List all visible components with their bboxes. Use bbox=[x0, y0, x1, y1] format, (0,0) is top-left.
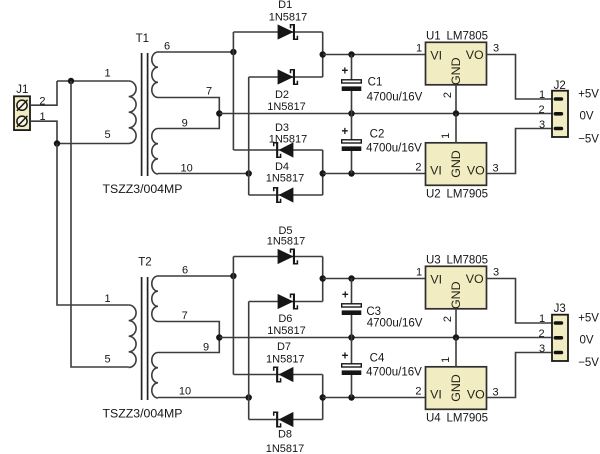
wire J1 pin2 to riser bbox=[30, 81, 57, 105]
node - output T2 bbox=[320, 394, 326, 400]
svg-text:5: 5 bbox=[104, 353, 110, 365]
wire T1 pin10 bbox=[158, 173, 249, 175]
wire vertical x71 down to T2 pin5 bbox=[71, 81, 129, 367]
svg-text:1N5817: 1N5817 bbox=[267, 101, 306, 113]
svg-text:+: + bbox=[342, 126, 349, 138]
svg-text:1: 1 bbox=[104, 68, 110, 80]
svg-text:VI: VI bbox=[430, 163, 442, 177]
transformer T2 core bbox=[141, 277, 143, 400]
svg-text:3: 3 bbox=[493, 42, 499, 54]
wire U1 VO to J2 pin1 bbox=[487, 55, 553, 100]
svg-text:J3: J3 bbox=[554, 303, 566, 315]
node T2 pins 7/9 centre tap bbox=[216, 334, 222, 340]
node pin6 / D1-D3 tap bbox=[230, 49, 236, 55]
svg-text:D8: D8 bbox=[278, 429, 292, 441]
wire C1 leads bbox=[351, 55, 353, 81]
svg-text:GND: GND bbox=[449, 57, 463, 85]
wire D4 row bbox=[249, 194, 323, 196]
svg-text:VO: VO bbox=[466, 48, 484, 62]
diode D7 bbox=[279, 368, 293, 382]
svg-text:LM7905: LM7905 bbox=[447, 189, 489, 201]
svg-text:C1: C1 bbox=[368, 76, 383, 88]
diode D1 bbox=[278, 25, 293, 39]
wire T2 pin7 bbox=[158, 322, 219, 338]
diode D8 bbox=[279, 413, 293, 427]
svg-text:+5V: +5V bbox=[578, 89, 599, 101]
diode D2 bbox=[278, 70, 293, 84]
wire D1 row bbox=[233, 31, 322, 33]
svg-text:TSZZ3/004MP: TSZZ3/004MP bbox=[103, 406, 183, 420]
wire 0V rail bottom section bbox=[219, 337, 552, 339]
svg-text:2: 2 bbox=[442, 316, 454, 322]
node C1 top bbox=[348, 51, 354, 57]
transformer T1 secondary winding upper bbox=[152, 52, 158, 98]
wire U3 VO to J3 pin1 bbox=[487, 279, 553, 324]
wire J1 pin1 to faller bbox=[30, 121, 57, 143]
svg-text:C3: C3 bbox=[366, 306, 381, 318]
svg-text:1: 1 bbox=[539, 89, 545, 101]
node T1 pin1 / T2 feed junction bbox=[68, 78, 74, 84]
svg-text:1N5817: 1N5817 bbox=[267, 325, 306, 337]
transformer T1 secondary winding lower bbox=[152, 129, 158, 175]
wire D8 row bbox=[249, 419, 323, 421]
wire C4 leads bbox=[351, 338, 353, 365]
svg-text:2: 2 bbox=[415, 161, 421, 173]
connector J2 pin3 bbox=[554, 127, 564, 131]
wire D5-D6 output vertical bbox=[322, 257, 324, 302]
svg-text:6: 6 bbox=[182, 265, 188, 277]
svg-text:VO: VO bbox=[466, 272, 484, 286]
wire U1 GND down bbox=[455, 85, 457, 114]
connector J3 pin3 bbox=[554, 351, 564, 355]
capacitor C4 bbox=[342, 364, 362, 367]
svg-text:J2: J2 bbox=[554, 80, 566, 92]
wire T1 pin1 row bbox=[57, 80, 129, 82]
wire D6 row bbox=[249, 301, 323, 303]
svg-text:VI: VI bbox=[430, 48, 442, 62]
svg-text:U4: U4 bbox=[426, 413, 441, 425]
wire T2 pin10 bbox=[158, 397, 249, 399]
wire T1 pin6 bbox=[158, 51, 233, 53]
svg-text:VO: VO bbox=[467, 387, 485, 401]
svg-text:7: 7 bbox=[206, 86, 212, 98]
svg-text:U1: U1 bbox=[426, 31, 441, 43]
wire C2 leads bbox=[351, 114, 353, 141]
node T2 pin6 / D5-D7 tap bbox=[230, 273, 236, 279]
svg-text:2: 2 bbox=[415, 385, 421, 397]
svg-text:D1: D1 bbox=[278, 0, 292, 11]
connector J2 body bbox=[552, 91, 568, 137]
svg-text:7: 7 bbox=[182, 310, 188, 322]
svg-text:3: 3 bbox=[539, 119, 545, 131]
node pin10 / D2-D4 tap bbox=[246, 170, 252, 176]
wire D7 row bbox=[233, 374, 322, 376]
svg-text:D4: D4 bbox=[275, 161, 289, 173]
svg-text:VI: VI bbox=[430, 272, 442, 286]
wire U2 VO to J2 pin3 bbox=[487, 129, 553, 174]
node 0V at C1/C2 bbox=[348, 110, 354, 116]
connector J2 pin1 bbox=[554, 97, 564, 101]
svg-text:−5V: −5V bbox=[578, 357, 599, 369]
svg-text:−5V: −5V bbox=[578, 133, 599, 145]
svg-text:1: 1 bbox=[416, 266, 422, 278]
node U1/U2 GND at 0V bbox=[453, 110, 459, 116]
svg-text:GND: GND bbox=[449, 281, 463, 309]
wire T1 pin5 row bbox=[57, 143, 129, 145]
transformer T1 core bbox=[141, 53, 143, 176]
svg-text:9: 9 bbox=[203, 341, 209, 353]
node C2 bottom bbox=[348, 170, 354, 176]
svg-text:4700u/16V: 4700u/16V bbox=[366, 143, 422, 155]
svg-text:3: 3 bbox=[493, 266, 499, 278]
svg-text:+: + bbox=[342, 290, 349, 302]
svg-text:LM7805: LM7805 bbox=[447, 255, 489, 267]
transformer T2 secondary winding lower bbox=[152, 353, 158, 399]
wire C3 leads bbox=[351, 279, 353, 305]
wire - rail to U4 bbox=[323, 397, 426, 399]
svg-text:4700u/16V: 4700u/16V bbox=[367, 92, 423, 104]
connector J3 pin2 bbox=[554, 336, 564, 340]
diode D5 bbox=[278, 250, 293, 264]
svg-text:C4: C4 bbox=[370, 352, 385, 364]
wire D1/D3 vertical bbox=[232, 32, 234, 150]
svg-text:VI: VI bbox=[430, 387, 442, 401]
svg-text:T1: T1 bbox=[136, 33, 149, 45]
wire - rail to U2 bbox=[323, 173, 426, 175]
node - output T1 bbox=[320, 170, 326, 176]
capacitor C1 bbox=[342, 80, 362, 83]
svg-text:10: 10 bbox=[179, 385, 191, 397]
svg-text:2: 2 bbox=[538, 328, 544, 340]
wire D2/D4 vertical bbox=[248, 77, 250, 195]
svg-text:C2: C2 bbox=[370, 128, 385, 140]
svg-text:+: + bbox=[342, 350, 349, 362]
transformer T1 primary winding bbox=[129, 81, 136, 143]
svg-text:D2: D2 bbox=[275, 89, 289, 101]
svg-text:1N5817: 1N5817 bbox=[266, 172, 305, 184]
regulator U3 body bbox=[426, 266, 487, 309]
svg-text:4700u/16V: 4700u/16V bbox=[366, 367, 422, 379]
node U3/U4 GND at 0V bbox=[453, 334, 459, 340]
wire U2 GND up bbox=[455, 114, 457, 143]
svg-text:GND: GND bbox=[449, 374, 463, 402]
capacitor C3 bbox=[342, 304, 362, 307]
svg-text:1: 1 bbox=[416, 42, 422, 54]
wire D7-D8 output vertical bbox=[322, 375, 324, 420]
svg-text:VO: VO bbox=[467, 163, 485, 177]
capacitor C2 bbox=[342, 140, 362, 143]
svg-text:2: 2 bbox=[538, 104, 544, 116]
node pins 7/9 centre tap bbox=[216, 110, 222, 116]
node + output T2 bbox=[320, 275, 326, 281]
svg-text:T2: T2 bbox=[138, 257, 151, 269]
wire U4 VO to J3 pin3 bbox=[487, 353, 553, 398]
connector J3 body bbox=[552, 315, 568, 361]
svg-text:J1: J1 bbox=[16, 84, 28, 96]
regulator U4 body bbox=[426, 367, 487, 410]
diode D4 bbox=[279, 188, 293, 202]
wire D2 row bbox=[249, 76, 323, 78]
node C3 top bbox=[348, 275, 354, 281]
wire D6/D8 vertical bbox=[248, 302, 250, 420]
node 0V at C3/C4 bbox=[348, 334, 354, 340]
svg-text:5: 5 bbox=[104, 129, 110, 141]
wire U3 GND down bbox=[455, 309, 457, 338]
wire U4 GND up bbox=[455, 338, 457, 367]
svg-text:+: + bbox=[342, 66, 349, 78]
connector J3 pin1 bbox=[554, 321, 564, 325]
svg-text:LM7805: LM7805 bbox=[447, 31, 489, 43]
node T2 pin10 / D6-D8 tap bbox=[246, 394, 252, 400]
connector J1 bbox=[14, 96, 30, 130]
svg-text:1N5817: 1N5817 bbox=[269, 133, 308, 145]
svg-text:0V: 0V bbox=[579, 335, 593, 347]
svg-text:1N5817: 1N5817 bbox=[266, 443, 305, 454]
svg-text:TSZZ3/004MP: TSZZ3/004MP bbox=[103, 182, 183, 196]
svg-text:LM7905: LM7905 bbox=[447, 413, 489, 425]
svg-text:+5V: +5V bbox=[578, 313, 599, 325]
regulator U1 body bbox=[426, 42, 487, 85]
wire T2 pin9 bbox=[158, 338, 219, 353]
diode D6 bbox=[278, 295, 293, 309]
wire + rail to U1 bbox=[323, 54, 426, 56]
svg-text:1: 1 bbox=[539, 313, 545, 325]
svg-text:D7: D7 bbox=[277, 341, 291, 353]
wire + rail to U3 bbox=[323, 278, 426, 280]
wire D5 row bbox=[233, 256, 322, 258]
diode D3 bbox=[279, 143, 293, 157]
svg-text:2: 2 bbox=[442, 92, 454, 98]
svg-text:GND: GND bbox=[449, 150, 463, 178]
wire 0V rail top section bbox=[219, 113, 552, 115]
regulator U2 body bbox=[426, 143, 487, 186]
transformer T2 primary winding bbox=[129, 305, 136, 367]
svg-text:1: 1 bbox=[440, 357, 452, 363]
svg-text:U3: U3 bbox=[426, 255, 441, 267]
svg-text:U2: U2 bbox=[426, 189, 441, 201]
svg-text:1N5817: 1N5817 bbox=[269, 12, 308, 24]
node T1 pin5 / T2 feed junction bbox=[54, 140, 60, 146]
svg-text:4700u/16V: 4700u/16V bbox=[367, 318, 423, 330]
wire D5/D7 vertical bbox=[232, 257, 234, 375]
node + output T1 bbox=[320, 51, 326, 57]
svg-text:0V: 0V bbox=[579, 111, 593, 123]
wire D3 row bbox=[233, 149, 322, 151]
svg-text:1: 1 bbox=[104, 293, 110, 305]
wire T1 pin9 bbox=[158, 114, 219, 129]
wire vertical x57 down to T2 pin1 bbox=[57, 144, 129, 306]
svg-text:3: 3 bbox=[539, 343, 545, 355]
transformer T2 secondary winding upper bbox=[152, 276, 158, 322]
svg-text:1N5817: 1N5817 bbox=[266, 353, 305, 365]
wire T1 pin7 bbox=[158, 98, 219, 114]
wire D3-D4 output vertical bbox=[322, 150, 324, 195]
svg-text:1N5817: 1N5817 bbox=[267, 236, 306, 248]
wire T2 pin6 bbox=[158, 275, 233, 277]
svg-text:6: 6 bbox=[164, 40, 170, 52]
svg-text:1: 1 bbox=[440, 133, 452, 139]
connector J2 pin2 bbox=[554, 112, 564, 116]
svg-text:D6: D6 bbox=[278, 313, 292, 325]
wire D1-D2 output vertical bbox=[322, 32, 324, 77]
node C4 bottom bbox=[348, 394, 354, 400]
svg-text:D3: D3 bbox=[275, 122, 289, 134]
